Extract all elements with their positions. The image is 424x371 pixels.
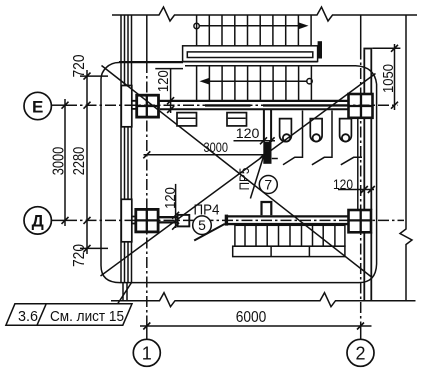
lintel square PR4: [178, 215, 190, 227]
wall left outer lines: [121, 15, 132, 283]
svg-text:7: 7: [264, 177, 272, 193]
callout circle 7: [259, 176, 277, 194]
partition stub at D wall: [262, 202, 272, 215]
stair upper flight treads: [197, 15, 312, 46]
wall stub stair right: [318, 41, 322, 58]
wall D end cap: [225, 215, 228, 226]
dim 120 E junction: [155, 68, 183, 70]
wall right top cap: [363, 48, 372, 50]
lintel opening lines: [159, 217, 178, 222]
dim 120 partition: [234, 140, 276, 142]
stair lower flight arrow: [307, 79, 312, 84]
wire diagonal cross arm A: [101, 74, 376, 277]
axis E dashdot: [52, 104, 67, 106]
dim 1050 right: [372, 47, 400, 49]
svg-text:3000: 3000: [204, 140, 229, 155]
wall stub D connectors: [132, 217, 136, 224]
axis circle D: [24, 207, 51, 234]
wall right inner face: [357, 117, 359, 210]
dim 6000 bottom: [140, 325, 372, 327]
dim 120 right wall: [338, 189, 374, 191]
wall E bottom face: [160, 108, 349, 110]
svg-text:1050: 1050: [381, 64, 397, 93]
urinal 2: [310, 119, 322, 142]
wall pier rect at E left: [121, 86, 132, 127]
wire bottom break line: [111, 293, 416, 307]
ticks left dims: [62, 73, 91, 252]
label parallelogram: [6, 304, 132, 325]
toilet partition 2 with break: [312, 111, 332, 165]
wire top break line: [112, 7, 417, 21]
wall D faces: [225, 215, 349, 217]
radiator grate top row: [235, 225, 345, 246]
svg-text:120: 120: [236, 126, 260, 141]
svg-text:120: 120: [333, 177, 353, 192]
svg-text:2280: 2280: [71, 146, 88, 175]
callout circle 5: [193, 216, 212, 235]
wire diagonal cross arm B: [102, 66, 372, 278]
partition wall 120: [264, 109, 271, 142]
svg-text:3000: 3000: [50, 146, 67, 175]
label leader: [118, 283, 132, 304]
toilet partition 1 with break: [283, 111, 303, 165]
stair upper flight arrow: [194, 23, 199, 28]
wall E heavy band: [205, 104, 349, 106]
wall pier rect at D left: [121, 199, 132, 242]
axis D dashdot: [52, 219, 67, 221]
axis circle 2: [347, 339, 374, 366]
wire right break line: [400, 15, 412, 301]
svg-text:3.6: 3.6: [18, 309, 38, 325]
svg-text:ПР4: ПР4: [194, 202, 220, 219]
pier E2: [349, 94, 373, 118]
wall E horizontal top face: [159, 100, 349, 102]
wall break mark right: [341, 157, 362, 165]
leader PR5: [250, 145, 267, 199]
pier D2: [349, 210, 372, 232]
ext line bottom chain: [80, 247, 108, 249]
dim chain left: [86, 70, 88, 254]
wall right faces: [364, 49, 371, 300]
svg-text:6000: 6000: [236, 309, 267, 326]
svg-text:5: 5: [198, 217, 206, 233]
svg-text:1: 1: [142, 343, 152, 363]
washbasin 2: [227, 113, 247, 126]
dim 3000 room: [144, 154, 264, 156]
svg-text:120: 120: [163, 187, 179, 209]
svg-text:720: 720: [71, 244, 88, 267]
dim line 3000 left: [64, 99, 66, 226]
svg-text:См. лист 15: См. лист 15: [50, 309, 124, 325]
urinal 1: [280, 119, 292, 142]
stair landing slab: [183, 46, 318, 62]
axis 1 dashdot: [146, 15, 148, 62]
dim 120 D junction: [175, 184, 177, 228]
svg-text:2: 2: [355, 343, 365, 363]
pier E1: [137, 95, 159, 117]
svg-text:120: 120: [155, 70, 172, 92]
axis circle 1: [133, 339, 160, 366]
wall stub E connectors: [132, 101, 137, 109]
svg-text:ПР5: ПР5: [237, 168, 252, 191]
small door mark: [272, 158, 278, 160]
pier D1: [136, 209, 158, 232]
svg-text:Д: Д: [32, 212, 44, 231]
axis 2 dashdot: [360, 15, 362, 49]
leader PR4: [194, 224, 225, 241]
washbasin 1: [177, 113, 197, 126]
urinal 3: [340, 119, 352, 142]
stair lower flight treads: [197, 66, 312, 101]
radiator grate bottom row: [233, 246, 345, 256]
axis circle E: [24, 92, 51, 119]
ext line top chain: [80, 75, 108, 77]
node fragment outline rounded: [101, 62, 183, 265]
svg-text:720: 720: [71, 54, 88, 77]
svg-text:Е: Е: [32, 97, 43, 116]
